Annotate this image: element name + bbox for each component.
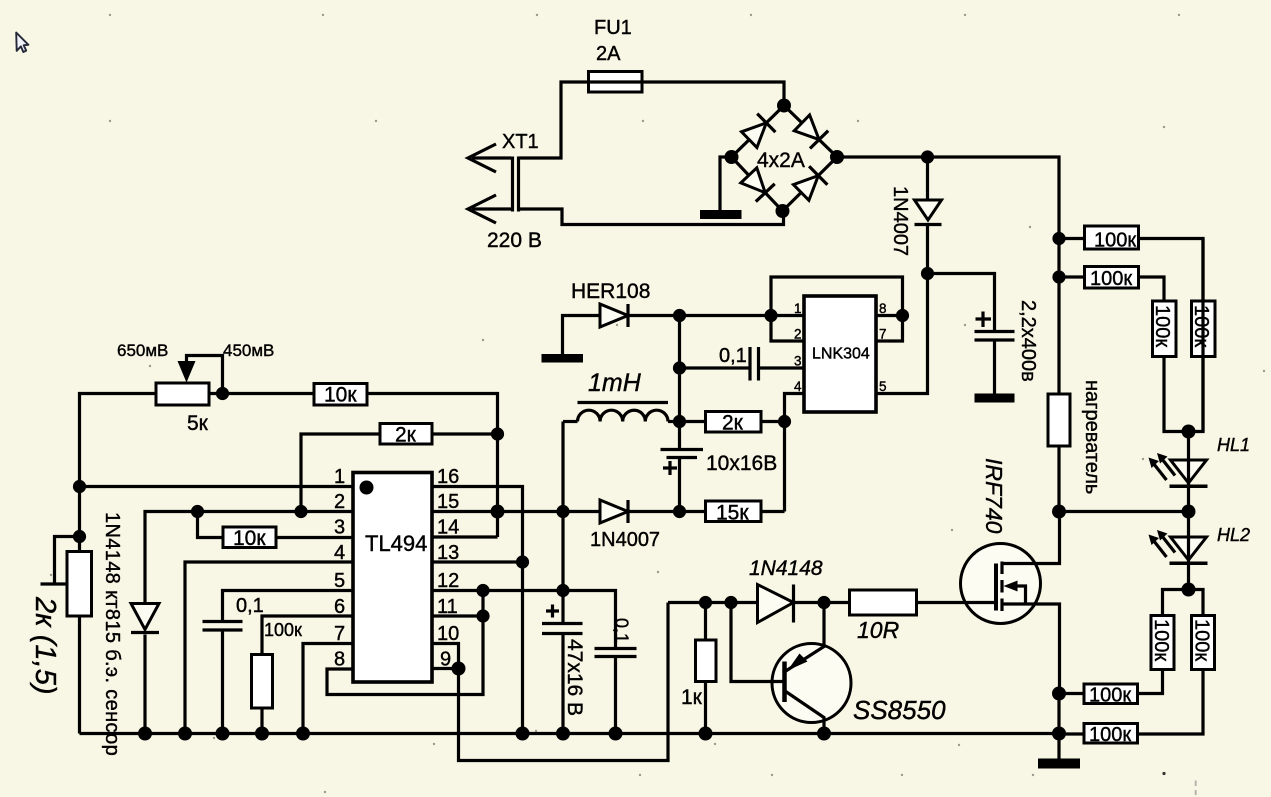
svg-text:4: 4 — [794, 379, 802, 394]
junction left column pin1 — [73, 480, 86, 493]
junction pin4 / 2к / 15к — [778, 415, 791, 428]
svg-text:12: 12 — [437, 570, 459, 592]
transistor Q1 SS8550 — [731, 603, 851, 734]
resistor R 100к (pin 6) — [252, 616, 354, 734]
svg-text:16: 16 — [437, 466, 459, 488]
svg-text:100к: 100к — [1090, 268, 1132, 290]
TL494 pin numbers — [334, 466, 459, 671]
svg-text:100к: 100к — [1089, 724, 1131, 746]
svg-text:10: 10 — [437, 623, 459, 645]
wire right column to ground — [1057, 694, 1060, 759]
resistor R 2к (1,5) sensor — [41, 487, 92, 734]
mouse cursor — [16, 33, 28, 53]
junction pin2 / 2к — [294, 505, 307, 518]
wire pot to 10к — [209, 392, 314, 395]
wire TL494 pin 7 to rail — [303, 644, 353, 734]
wire LNK304 pin 8 stub — [876, 314, 903, 317]
svg-text:8: 8 — [334, 649, 345, 671]
junction rail pin4 — [178, 727, 192, 741]
svg-text:7: 7 — [879, 327, 887, 342]
svg-text:2A: 2A — [596, 43, 621, 65]
svg-text:100к: 100к — [1190, 305, 1212, 347]
svg-text:47х16 В: 47х16 В — [563, 639, 586, 716]
junction flyback cathode / 10x16В — [673, 505, 686, 518]
svg-text:8: 8 — [879, 301, 887, 316]
fuse FU1 — [589, 72, 643, 93]
LED HL1 — [1149, 432, 1208, 512]
junction pin8-pin7 loop — [896, 309, 909, 322]
junction top rail / diode 1N4007 — [921, 150, 934, 163]
svg-text:TL494: TL494 — [365, 531, 427, 556]
bridge diode top-left — [742, 114, 776, 148]
wire LNK pin 4 to 2к and 15к — [785, 394, 805, 512]
wire bridge left to ground — [720, 157, 732, 210]
svg-text:1mH: 1mH — [588, 369, 642, 397]
LNK304 pin numbers — [794, 301, 887, 394]
svg-text:1: 1 — [794, 301, 802, 316]
junction rail 100к pin6 — [255, 727, 269, 741]
wire TL494 pin 12 line — [432, 591, 616, 648]
wire LNK304 pins 1-2-8-7 loop — [771, 277, 903, 341]
resistor R 15к — [706, 501, 785, 522]
svg-text:100к: 100к — [1151, 305, 1173, 347]
svg-text:100к: 100к — [1094, 230, 1136, 252]
junction pin12 / 47µ — [556, 584, 569, 597]
svg-text:0,1: 0,1 — [612, 618, 632, 643]
wire inductor left leg down — [561, 422, 564, 512]
junction rail pin16 column — [516, 727, 530, 741]
junction pin1-pin2 loop — [764, 309, 777, 322]
junction pin2 / 10к lower — [191, 505, 204, 518]
wire through vertical B — [1201, 239, 1204, 432]
wire TL494 pin 4 to rail — [185, 562, 353, 734]
junction pin12 / pin8 column — [476, 584, 489, 597]
junction bridge top — [777, 99, 791, 113]
junction 1N4007 cathode node — [921, 267, 934, 280]
bridge diode top-right — [794, 115, 828, 149]
svg-text:2к (1,5): 2к (1,5) — [29, 596, 61, 695]
junction right column 100к top — [1052, 232, 1065, 245]
junction 2к(1,5) tap — [73, 530, 86, 543]
wire cap to ground — [993, 342, 996, 395]
resistor R 100к (bottom right upper) — [1059, 684, 1138, 704]
svg-text:IRF740: IRF740 — [981, 458, 1007, 534]
wire XT1 lower pin to bridge bottom — [519, 209, 784, 225]
wire XT1 upper pin to fuse FU1 — [519, 82, 589, 158]
svg-text:2,2х400в: 2,2х400в — [1017, 300, 1039, 382]
resistor R 100к (vertical D) — [1138, 590, 1215, 735]
wire TL494 pin 2 to 1N4148 — [145, 512, 353, 605]
junction rail 1N4148 — [138, 727, 152, 741]
svg-text:3: 3 — [334, 517, 345, 539]
junction bridge right — [830, 150, 844, 164]
junction right column drain — [1052, 505, 1066, 519]
junction 0,1 cap tee — [673, 361, 686, 374]
svg-text:0,1: 0,1 — [719, 345, 747, 367]
svg-text:1N4007: 1N4007 — [590, 529, 660, 551]
junction rail pin7 — [296, 727, 310, 741]
junction rail collector — [817, 727, 831, 741]
bridge rectifier 4x2A diamond — [732, 106, 838, 212]
junction emitter / 10R — [817, 596, 830, 609]
ground at bridge — [700, 210, 742, 219]
svg-text:100к: 100к — [1191, 619, 1213, 661]
diode VD3 1N4007 (flyback) — [600, 500, 706, 523]
svg-text:LNK304: LNK304 — [812, 346, 870, 363]
svg-text:5: 5 — [334, 570, 345, 592]
resistor R 100к (top right 1) — [1059, 226, 1203, 301]
wire node to capacitor 2,2x400в — [928, 274, 995, 331]
junction gate line base branch — [724, 596, 737, 609]
resistor R 100к (vertical C) — [1138, 590, 1189, 694]
resistor R 2к — [680, 412, 785, 433]
wire pot left to left column — [80, 394, 157, 487]
resistor R 10к (pin 3) — [198, 512, 354, 548]
wire TL494 pin 11 stub — [432, 614, 483, 617]
bridge diode bottom-right — [793, 166, 827, 200]
capacitor C 47x16 В — [542, 512, 583, 734]
svg-text:10x16В: 10x16В — [706, 452, 777, 475]
transistor Q2 IRF740 — [917, 512, 1060, 694]
junction bridge bottom — [776, 204, 790, 218]
resistor R 100к (vertical A) — [1153, 301, 1189, 432]
resistor R 10R — [850, 590, 917, 615]
diode VD2 HER108 — [600, 304, 628, 327]
resistor R 10к (upper) — [314, 384, 498, 538]
wire TL494 pin 9 stub — [432, 667, 459, 670]
wire feedback line TL494 pin15 to 15к — [432, 510, 600, 513]
svg-text:XT1: XT1 — [502, 131, 539, 153]
ground at 2,2x400в — [975, 394, 1015, 403]
diode VD5 1N4148 (gate) — [758, 585, 850, 623]
svg-text:1N4148: 1N4148 — [749, 557, 823, 580]
junction right column 100к second — [1052, 270, 1065, 283]
ground right column — [1038, 759, 1080, 769]
wire gate line left segment — [668, 601, 758, 604]
wire fuse to bridge top — [642, 82, 784, 106]
wire TL494 pin 10 to pin 9 — [432, 644, 459, 669]
svg-text:SS8550: SS8550 — [853, 695, 946, 725]
wire HER108 to LNK304 pin 1 — [628, 314, 804, 317]
potentiometer R 5к — [156, 356, 223, 406]
svg-text:10R: 10R — [857, 617, 899, 643]
wire TL494 pin 1 to left column — [80, 485, 354, 488]
junction LED column top — [1182, 425, 1196, 439]
svg-text:HL2: HL2 — [1217, 525, 1250, 545]
svg-text:15к: 15к — [716, 502, 749, 525]
svg-text:650мВ: 650мВ — [117, 341, 168, 360]
junction rail 1к — [699, 727, 713, 741]
bridge diode bottom-left — [741, 168, 775, 202]
inductor L1 1mH — [563, 403, 680, 422]
junction rail 0,1 output — [609, 727, 623, 741]
wire drain node to LED mid — [1059, 510, 1189, 513]
resistor R нагреватель (heater) — [1048, 394, 1070, 512]
ground at HER108 — [542, 354, 584, 363]
junction pin9 / pin10 — [452, 662, 466, 676]
junction pin13 / pin16 column — [516, 555, 529, 568]
wire TL494 pin 8 loop to pins 11-12 — [327, 591, 483, 695]
svg-text:0,1: 0,1 — [236, 595, 264, 617]
diode VD1 1N4007 (rail to LNK) — [915, 157, 942, 274]
svg-text:3: 3 — [794, 354, 802, 369]
svg-text:2: 2 — [794, 327, 802, 342]
svg-text:100к: 100к — [1150, 619, 1172, 661]
wire ground to HER108 anode — [563, 316, 601, 355]
junction LED mid node — [1182, 505, 1196, 519]
svg-text:1N4148 кт815 б.э. сенсор: 1N4148 кт815 б.э. сенсор — [101, 512, 123, 756]
TL494 pin 1 marker dot — [360, 481, 374, 495]
junction inductor leg / feedback — [556, 505, 569, 518]
connector XT1 plug — [468, 144, 519, 223]
svg-text:2к: 2к — [722, 412, 744, 435]
svg-text:2к: 2к — [395, 424, 417, 447]
junction 2к / 10к column — [491, 427, 504, 440]
wire pin 9 to gate drive line — [459, 603, 669, 761]
svg-text:7: 7 — [334, 623, 345, 645]
junction bridge left — [725, 150, 739, 164]
wire HER108 node down to inductor node — [678, 316, 681, 422]
capacitor C 2,2x400в — [975, 312, 1015, 341]
resistor R 1к — [696, 603, 717, 734]
capacitor 0,1 (LNK pin 3) — [680, 347, 805, 381]
IC U1 TL494 — [353, 473, 432, 683]
svg-text:10к: 10к — [233, 527, 266, 550]
junction right column 100к upper — [1052, 687, 1066, 701]
junction inductor right / 2к — [673, 415, 686, 428]
wire TL494 pin16 to pin13 and rail — [432, 487, 523, 734]
svg-text:450мВ: 450мВ — [223, 341, 274, 360]
resistor R 100к (bottom right lower) — [1059, 724, 1138, 744]
wire TL494 pin 14 stub — [432, 535, 498, 538]
junction pin11 / pin8 column — [476, 609, 489, 622]
wire TL494 pin 13 stub — [432, 560, 523, 563]
wire 1N4007 node to LNK304 pin 5 — [876, 274, 928, 394]
junction gate line 1к — [699, 596, 712, 609]
diode VD4 1N4148 (pin 2) — [131, 604, 159, 734]
resistor R 100к (top right 2) — [1059, 267, 1164, 302]
svg-text:14: 14 — [437, 517, 459, 539]
IC U2 LNK304 — [804, 296, 876, 412]
svg-text:100к: 100к — [264, 620, 302, 640]
svg-text:1N4007: 1N4007 — [889, 186, 911, 256]
junction HER108 node — [673, 309, 686, 322]
junction rail 0,1 pin5 — [216, 727, 230, 741]
wire top rail bridge to right column — [837, 157, 1059, 394]
svg-text:нагреватель: нагреватель — [1081, 380, 1103, 494]
junction pin15 column — [491, 505, 505, 519]
capacitor C 10x16В — [661, 422, 704, 512]
resistor R 100к (vertical B) — [1189, 301, 1216, 432]
svg-text:100к: 100к — [1089, 685, 1131, 707]
svg-text:5: 5 — [879, 379, 887, 394]
svg-text:10к: 10к — [324, 384, 357, 407]
svg-text:1: 1 — [334, 466, 345, 488]
junction rail right end — [1052, 727, 1066, 741]
svg-text:1к: 1к — [681, 686, 703, 709]
svg-text:15: 15 — [437, 491, 459, 513]
resistor R 2к (feedback) — [301, 424, 498, 512]
LED HL2 — [1149, 512, 1208, 590]
main ground rail — [80, 732, 1060, 735]
capacitor 0,1 (pin 5) — [203, 591, 354, 734]
junction pot wiper — [216, 387, 229, 400]
capacitor 0,1 (output) — [595, 649, 637, 734]
svg-text:HL1: HL1 — [1217, 435, 1250, 455]
junction LED bottom node — [1182, 583, 1196, 597]
junction rail 47µ — [556, 727, 570, 741]
svg-text:220 В: 220 В — [487, 229, 542, 252]
svg-text:HER108: HER108 — [571, 280, 650, 303]
svg-text:2: 2 — [334, 491, 345, 513]
svg-text:4x2A: 4x2A — [757, 149, 805, 172]
svg-text:FU1: FU1 — [594, 17, 632, 39]
svg-text:5к: 5к — [187, 412, 209, 435]
